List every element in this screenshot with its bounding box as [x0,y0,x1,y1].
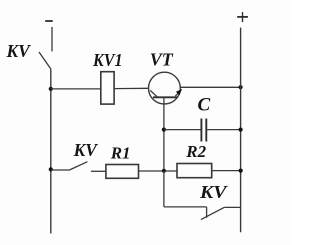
svg-text:KV: KV [73,140,99,160]
wire coil to transistor [114,87,149,89]
resistor R2 [177,164,212,178]
resistor R1 [106,165,139,179]
node junction right row2 [239,169,243,173]
wire lower-left drop [164,171,207,207]
switch KV (bottom NC contact) [201,207,241,220]
wire row1 left [51,88,101,90]
node junction left row2 [49,167,53,171]
wire left rail [50,69,52,233]
wire cap row right [206,129,240,131]
wire row2 from left rail [51,169,70,171]
svg-text:C: C [198,94,211,115]
transistor VT [149,72,182,104]
node junction left row1 [49,87,53,91]
svg-text:R1: R1 [110,144,131,163]
minus terminal label [45,20,53,22]
svg-text:R2: R2 [185,142,206,161]
node junction cap row right [239,128,243,132]
wire transistor to right rail [180,86,240,88]
svg-text:KV: KV [199,182,228,202]
svg-text:VT: VT [150,50,174,70]
plus terminal label [237,12,248,22]
wire switch to R1 [91,170,106,172]
node junction cap row left [162,128,166,132]
switch KV (top-left contact) [39,52,51,69]
wire R1 to R2 [139,170,178,172]
node junction right row1 [239,85,243,89]
capacitor C [201,119,206,142]
wire base lead down [163,97,165,170]
svg-text:KV: KV [6,41,32,61]
node junction center row2 [162,169,166,173]
switch KV (middle contact) [69,162,87,170]
relay coil KV1 [101,72,114,104]
wire right rail [240,28,242,233]
wire R2 to right rail [212,170,241,172]
wire cap row left [164,129,202,131]
wire top stub [51,27,53,51]
svg-text:KV1: KV1 [92,50,122,70]
